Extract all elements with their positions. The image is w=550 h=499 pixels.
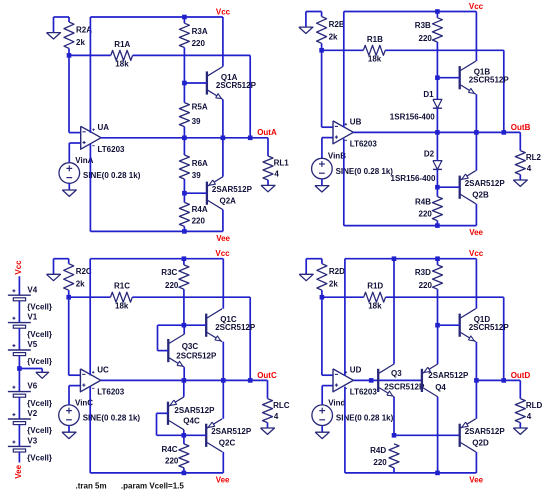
wire [249, 55, 251, 137]
wire [132, 296, 250, 298]
junction [502, 130, 507, 135]
transistor Q1C 2SCR512P [205, 314, 207, 337]
svg-text:18k: 18k [115, 60, 129, 69]
svg-text:R1B: R1B [367, 35, 383, 44]
svg-text:2k: 2k [76, 280, 85, 289]
junction [182, 191, 187, 196]
junction [474, 378, 479, 383]
svg-text:V2: V2 [27, 409, 37, 418]
svg-text:2k: 2k [329, 32, 338, 41]
wire [183, 193, 185, 202]
svg-text:UB: UB [350, 118, 362, 127]
wire [475, 12, 477, 62]
transistor Q2C 2SAR512P [205, 424, 207, 447]
wire [69, 374, 81, 376]
voltage source VinC [59, 405, 80, 426]
wire [321, 426, 323, 433]
ground [299, 274, 313, 280]
wire [18, 328, 20, 350]
svg-text:220: 220 [419, 34, 433, 43]
wire [385, 49, 504, 51]
wire [436, 12, 438, 18]
svg-text:39: 39 [192, 117, 201, 126]
op-amp UB LT6203 [333, 121, 353, 144]
junction [17, 366, 22, 371]
wire (V- supply pin) [89, 387, 91, 473]
svg-text:2SAR512P: 2SAR512P [174, 406, 215, 415]
wire [321, 297, 323, 375]
junction [182, 81, 187, 86]
wire [321, 259, 323, 264]
wire [53, 17, 55, 32]
wire [156, 413, 158, 435]
wire [322, 126, 333, 128]
junction [435, 471, 440, 476]
svg-text:R4B: R4B [415, 198, 431, 207]
wire [41, 369, 43, 373]
junction [248, 378, 253, 383]
svg-text:RL2: RL2 [526, 153, 542, 162]
svg-text:RL1: RL1 [274, 158, 290, 167]
wire [183, 325, 185, 334]
wire [222, 210, 224, 232]
wire [322, 296, 364, 298]
svg-text:1SR156-400: 1SR156-400 [390, 112, 435, 121]
wire [68, 183, 70, 190]
wire [69, 132, 81, 134]
svg-text:OutA: OutA [257, 128, 277, 137]
voltage source Vind [312, 405, 333, 426]
wire [475, 259, 477, 309]
junction [182, 378, 187, 383]
svg-text:Vcc: Vcc [215, 249, 230, 258]
svg-text:UC: UC [97, 366, 109, 375]
wire (V+ supply pin) [343, 12, 345, 128]
resistor R5A [179, 103, 189, 127]
svg-text:Vcc: Vcc [216, 7, 231, 16]
svg-text:R4C: R4C [162, 445, 178, 454]
svg-text:Q3C: Q3C [182, 342, 199, 351]
svg-text:LT6203: LT6203 [350, 387, 378, 396]
junction [369, 378, 374, 383]
wire [321, 290, 323, 297]
wire [183, 127, 185, 138]
battery V6 [8, 391, 31, 393]
wire [68, 290, 70, 297]
junction [435, 9, 440, 14]
wire Vcc rail [90, 16, 223, 18]
wire [437, 77, 459, 79]
svg-text:{Vcell}: {Vcell} [27, 302, 52, 311]
svg-text:{Vcell}: {Vcell} [27, 357, 52, 366]
svg-text:RLD: RLD [526, 401, 543, 410]
wire [68, 297, 70, 375]
transistor Q3 2SCR512P [377, 369, 379, 392]
wire [475, 452, 477, 473]
transistor Q4C 2SAR512P [167, 402, 169, 425]
svg-text:R2D: R2D [329, 267, 345, 276]
wire [157, 325, 159, 350]
svg-text:R3C: R3C [161, 268, 177, 277]
svg-text:220: 220 [192, 39, 206, 48]
wire Vee rail [345, 472, 477, 474]
wire [183, 83, 185, 103]
wire [475, 380, 477, 418]
op-amp UD LT6203 [333, 369, 353, 392]
svg-text:R1D: R1D [367, 282, 383, 291]
wire [68, 55, 70, 132]
wire [68, 17, 70, 22]
svg-text:Vcc: Vcc [469, 2, 484, 11]
ground [299, 27, 313, 33]
svg-text:R3D: R3D [415, 268, 431, 277]
wire [321, 138, 323, 159]
wire [222, 380, 224, 418]
wire [222, 100, 224, 138]
wire (V- supply pin) [343, 139, 345, 226]
svg-text:Q4C: Q4C [183, 416, 200, 425]
wire [18, 425, 20, 447]
resistor R3B [432, 18, 442, 42]
wire [386, 296, 504, 298]
svg-text:2SCR512P: 2SCR512P [384, 383, 425, 392]
junction [221, 136, 226, 141]
junction [435, 223, 440, 228]
wire [519, 380, 521, 398]
svg-text:2SAR512P: 2SAR512P [428, 371, 469, 380]
svg-text:Vee: Vee [469, 228, 483, 237]
transistor Q2A 2SAR512P [206, 182, 208, 205]
wire [184, 324, 206, 326]
wire [68, 426, 70, 433]
svg-text:2SCR512P: 2SCR512P [215, 323, 256, 332]
wire [68, 48, 70, 55]
resistor R1D [364, 292, 386, 302]
wire Vcc rail [345, 258, 477, 260]
svg-text:18k: 18k [368, 55, 382, 64]
junction [435, 185, 440, 190]
junction [67, 53, 72, 58]
wire [183, 259, 185, 265]
svg-text:.param Vcell=1.5: .param Vcell=1.5 [121, 482, 184, 491]
ground [513, 428, 527, 434]
voltage source VinA [59, 163, 80, 184]
wire [157, 434, 207, 436]
svg-text:18k: 18k [115, 301, 129, 310]
wire (V+ supply pin) [89, 259, 91, 376]
wire [157, 412, 169, 414]
svg-text:V3: V3 [27, 437, 37, 446]
wire [18, 452, 20, 462]
wire [54, 258, 69, 260]
svg-text:R5A: R5A [192, 103, 208, 112]
voltage source VinB [312, 158, 333, 179]
wire Vee rail [90, 472, 223, 474]
svg-text:OutC: OutC [257, 371, 277, 380]
svg-text:SINE(0 0.28 1k): SINE(0 0.28 1k) [83, 413, 141, 422]
svg-text:OutD: OutD [511, 371, 531, 380]
wire [68, 143, 70, 163]
wire [436, 132, 438, 160]
wire [68, 386, 70, 405]
svg-text:OutB: OutB [511, 123, 531, 132]
svg-text:Q2D: Q2D [472, 439, 489, 448]
svg-text:R1C: R1C [114, 282, 130, 291]
svg-text:R1A: R1A [114, 40, 130, 49]
svg-text:LT6203: LT6203 [350, 139, 378, 148]
wire [18, 397, 20, 419]
ground [47, 274, 61, 280]
wire OutB line [353, 131, 520, 133]
wire [222, 17, 224, 67]
svg-text:Vee: Vee [14, 464, 23, 478]
wire [322, 385, 333, 387]
svg-text:{Vcell}: {Vcell} [27, 399, 52, 408]
svg-text:Vee: Vee [216, 476, 230, 485]
wire [158, 350, 169, 352]
resistor R1B [363, 45, 385, 55]
resistor R2B [317, 17, 327, 44]
svg-text:2SAR512P: 2SAR512P [212, 185, 253, 194]
wire [322, 49, 364, 51]
wire Vcc rail [90, 258, 223, 260]
svg-text:2SCR512P: 2SCR512P [176, 352, 217, 361]
wire [183, 367, 185, 380]
svg-text:Vcc: Vcc [14, 260, 23, 275]
junction [182, 471, 187, 476]
wire [267, 380, 269, 398]
junction [320, 295, 325, 300]
wire [503, 297, 505, 380]
wire [183, 48, 185, 84]
junction [501, 378, 506, 383]
svg-text:2SCR512P: 2SCR512P [216, 81, 257, 90]
svg-text:Vind: Vind [328, 398, 345, 407]
svg-text:{Vcell}: {Vcell} [27, 426, 52, 435]
svg-text:Vee: Vee [216, 234, 230, 243]
svg-text:UA: UA [98, 123, 110, 132]
battery V4 [8, 294, 31, 296]
wire [475, 204, 477, 226]
resistor R4A [179, 202, 189, 226]
wire [183, 430, 185, 435]
wire [436, 78, 438, 100]
svg-text:V1: V1 [27, 313, 37, 322]
svg-text:LT6203: LT6203 [98, 145, 126, 154]
wire Vee rail [90, 230, 223, 232]
junction [435, 256, 440, 261]
wire [436, 169, 438, 187]
wire [436, 221, 438, 226]
wire [321, 386, 323, 405]
ground [62, 190, 76, 196]
battery V3 [8, 445, 31, 447]
battery V5 [8, 349, 31, 351]
wire [53, 259, 55, 274]
wire [222, 342, 224, 381]
wire [306, 11, 322, 13]
wire [437, 186, 459, 188]
junction [435, 130, 440, 135]
resistor RL2 [515, 151, 525, 175]
wire [69, 296, 111, 298]
resistor R3D [433, 265, 443, 289]
diode D1 [433, 99, 442, 108]
ground [315, 432, 329, 438]
wire OutA line [101, 137, 268, 139]
wire [68, 259, 70, 264]
wire [503, 50, 505, 132]
junction [66, 295, 71, 300]
transistor Q1D 2SCR512P [459, 314, 461, 337]
wire [184, 192, 207, 194]
wire [519, 423, 521, 428]
wire [249, 297, 251, 380]
junction [319, 48, 324, 53]
wire [393, 397, 395, 435]
wire [475, 132, 477, 170]
resistor R1C [111, 292, 133, 302]
wire [437, 397, 439, 473]
wire [18, 301, 20, 323]
wire [183, 435, 185, 444]
op-amp UA LT6203 [81, 126, 101, 149]
svg-text:D1: D1 [423, 90, 434, 99]
junction [248, 136, 253, 141]
svg-text:220: 220 [373, 458, 387, 467]
svg-text:V6: V6 [27, 382, 37, 391]
svg-text:1SR156-400: 1SR156-400 [391, 174, 436, 183]
wire op-amp UD output [353, 379, 422, 381]
svg-text:2k: 2k [329, 280, 338, 289]
svg-text:D2: D2 [424, 150, 435, 159]
resistor R6A [179, 155, 189, 179]
transistor Q3C 2SCR512P [167, 339, 169, 362]
op-amp UC LT6203 [80, 369, 100, 392]
transistor Q1A 2SCR512P [206, 71, 208, 94]
wire [18, 356, 20, 392]
junction [221, 378, 226, 383]
junction [435, 75, 440, 80]
svg-text:220: 220 [419, 209, 433, 218]
wire [393, 259, 395, 364]
svg-text:Vee: Vee [469, 476, 483, 485]
wire [267, 138, 269, 156]
junction [474, 130, 479, 135]
wire [322, 137, 333, 139]
ground [315, 186, 329, 192]
svg-text:LT6203: LT6203 [97, 387, 125, 396]
svg-text:SINE(0 0.28 1k): SINE(0 0.28 1k) [83, 171, 141, 180]
svg-text:220: 220 [419, 281, 433, 290]
svg-text:V4: V4 [27, 285, 37, 294]
svg-text:R4D: R4D [370, 446, 386, 455]
wire [321, 50, 323, 127]
svg-text:Q4: Q4 [435, 383, 446, 392]
transistor Q1B 2SCR512P [459, 66, 461, 89]
wire [475, 342, 477, 381]
wire [183, 179, 185, 193]
svg-text:R6A: R6A [192, 159, 208, 168]
resistor R1A [111, 50, 133, 60]
wire [321, 179, 323, 186]
wire [437, 259, 439, 265]
svg-text:UD: UD [350, 366, 362, 375]
wire [306, 258, 322, 260]
wire (V- supply pin) [89, 144, 91, 231]
svg-text:Q3: Q3 [391, 369, 402, 378]
wire OutD line [476, 379, 520, 381]
svg-text:2k: 2k [76, 38, 85, 47]
wire [69, 385, 80, 387]
wire [183, 17, 185, 23]
svg-text:4: 4 [527, 164, 532, 173]
svg-text:2SCR512P: 2SCR512P [469, 76, 510, 85]
svg-text:Q2A: Q2A [220, 197, 237, 206]
resistor R4C [179, 444, 189, 468]
svg-text:R3A: R3A [192, 27, 208, 36]
wire [184, 82, 207, 84]
resistor R3C [179, 265, 189, 289]
wire (V+ supply pin) [344, 259, 346, 376]
wire OutC line [101, 379, 268, 381]
wire Vcc rail [344, 11, 477, 13]
junction [182, 256, 187, 261]
svg-text:{Vcell}: {Vcell} [27, 454, 52, 463]
wire (V+ supply pin) [89, 17, 91, 133]
svg-text:220: 220 [165, 281, 179, 290]
wire [222, 452, 224, 473]
resistor RLC [263, 399, 273, 423]
wire [54, 16, 70, 18]
wire (V- supply pin) [344, 387, 346, 473]
svg-text:Q2C: Q2C [219, 439, 236, 448]
junction [182, 323, 187, 328]
junction [392, 256, 397, 261]
svg-text:V5: V5 [27, 340, 37, 349]
transistor Q2D 2SAR512P [459, 424, 461, 447]
junction [182, 433, 187, 438]
wire [183, 380, 185, 396]
wire [519, 132, 521, 150]
svg-text:.tran 5m: .tran 5m [76, 482, 107, 491]
svg-text:R2B: R2B [329, 20, 345, 29]
ground (battery midpoint) [36, 372, 49, 378]
ground [513, 180, 527, 186]
wire [183, 289, 185, 325]
wire [69, 54, 111, 56]
svg-text:2SAR512P: 2SAR512P [465, 427, 506, 436]
resistor R3A [179, 23, 189, 47]
wire [438, 324, 460, 326]
svg-text:4: 4 [274, 169, 279, 178]
wire [183, 138, 185, 155]
svg-text:R4A: R4A [192, 205, 208, 214]
battery V2 [8, 418, 31, 420]
svg-text:2SAR512P: 2SAR512P [465, 179, 506, 188]
resistor RL1 [263, 156, 273, 180]
ground [261, 185, 275, 191]
transistor Q2B 2SAR512P [459, 176, 461, 199]
wire [519, 175, 521, 180]
ground [261, 428, 275, 434]
svg-text:2SAR512P: 2SAR512P [211, 427, 252, 436]
wire [475, 94, 477, 132]
wire [437, 289, 439, 325]
wire [183, 226, 185, 231]
junction [392, 433, 397, 438]
svg-text:Q2B: Q2B [472, 191, 489, 200]
